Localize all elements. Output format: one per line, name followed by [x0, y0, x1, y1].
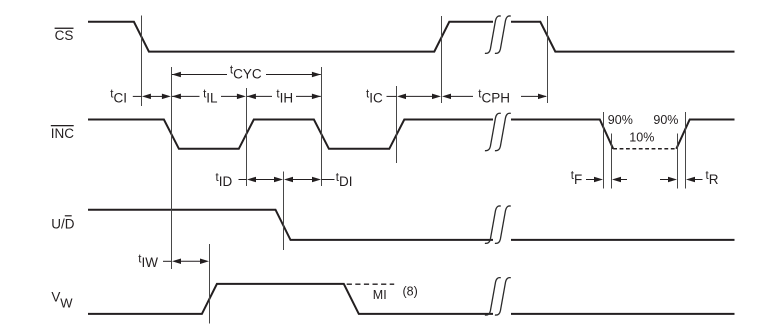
- node fall 90% marker: [603, 112, 605, 189]
- break mark U/D: [485, 206, 511, 243]
- svg-text:tCPH: tCPH: [478, 88, 510, 105]
- svg-text:tID: tID: [216, 172, 233, 189]
- dimension tCI: [110, 88, 171, 105]
- wire CS waveform: [88, 22, 735, 52]
- svg-text:90%: 90%: [653, 113, 678, 127]
- dimension tIC: [366, 88, 441, 105]
- svg-text:INC: INC: [51, 126, 75, 141]
- svg-text:tCYC: tCYC: [230, 65, 262, 82]
- node CS fall edge marker: [141, 16, 143, 107]
- break mark VW: [485, 278, 511, 315]
- svg-text:(8): (8): [403, 285, 418, 299]
- wire INC dashed 10% low segment: [613, 148, 676, 150]
- svg-text:tIW: tIW: [138, 253, 158, 270]
- dimension tF: [571, 170, 627, 187]
- wire VW waveform: [88, 284, 735, 314]
- node rise 10% marker: [677, 134, 679, 189]
- signal label VW: [51, 289, 73, 310]
- svg-text:CS: CS: [55, 28, 74, 43]
- node CS fall2 edge marker: [547, 16, 549, 103]
- svg-text:V: V: [51, 289, 60, 304]
- signal label CS (overbar): [55, 28, 74, 43]
- node INC fall2 edge marker: [321, 67, 323, 186]
- wire U/D waveform: [88, 210, 735, 240]
- dimension tID: [216, 172, 284, 189]
- svg-text:90%: 90%: [608, 113, 633, 127]
- wire INC waveform: [88, 120, 735, 149]
- svg-text:tIH: tIH: [276, 88, 293, 105]
- svg-text:tR: tR: [706, 170, 719, 187]
- dimension tR: [660, 170, 719, 187]
- node INC rise1 edge marker: [246, 88, 248, 186]
- node VW rise edge marker: [209, 244, 211, 324]
- break mark CS: [485, 16, 511, 53]
- svg-text:tIC: tIC: [366, 88, 383, 105]
- svg-text:MI: MI: [373, 288, 387, 302]
- svg-text:W: W: [60, 295, 73, 310]
- dimension tDI: [284, 172, 353, 189]
- svg-text:tF: tF: [571, 170, 582, 187]
- signal label U/D (bar over D): [51, 215, 75, 231]
- signal label INC (overbar): [51, 125, 75, 141]
- svg-text:10%: 10%: [629, 131, 654, 145]
- svg-text:tCI: tCI: [110, 88, 127, 105]
- dimension tIL: [172, 88, 246, 105]
- dimension tIW: [138, 253, 209, 270]
- node fall 10% marker: [611, 134, 613, 189]
- svg-text:U/D: U/D: [51, 216, 75, 231]
- node INC fall1 edge marker: [171, 67, 173, 269]
- wire MI dashed wiper level: [347, 283, 395, 285]
- node rise 90% marker: [685, 112, 687, 189]
- node U/D fall edge marker: [283, 172, 285, 251]
- svg-text:tDI: tDI: [336, 172, 353, 189]
- dimension tCYC: [172, 65, 321, 82]
- svg-text:tIL: tIL: [203, 88, 218, 105]
- dimension tCPH: [442, 88, 547, 105]
- break mark INC: [485, 113, 511, 150]
- dimension tIH: [247, 88, 321, 105]
- node INC rise2 edge marker: [396, 86, 398, 163]
- node CS rise edge marker: [441, 16, 443, 103]
